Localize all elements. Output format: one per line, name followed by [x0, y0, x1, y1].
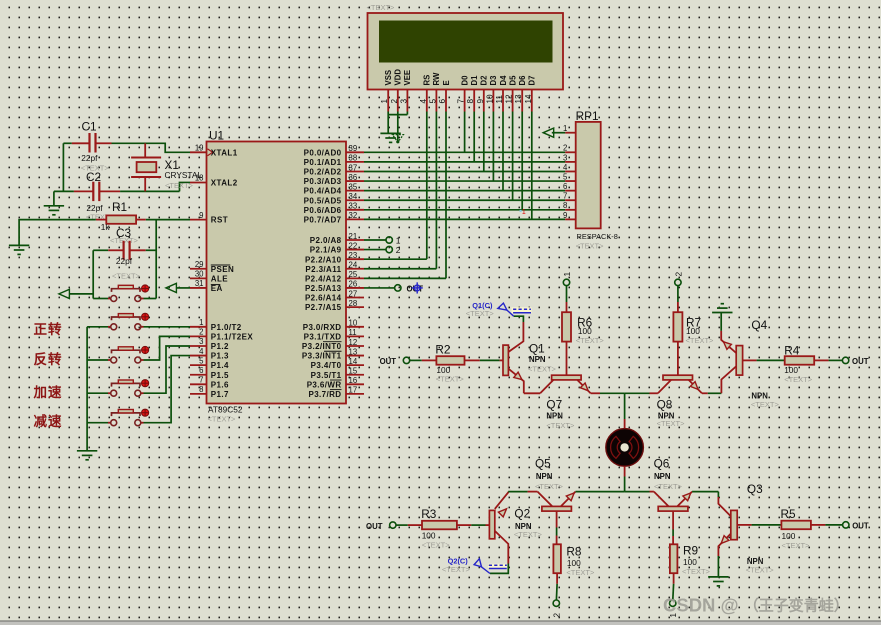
Q6 emitter — [677, 492, 692, 507]
U1 pin 2 P1.1/T2EX stub — [190, 335, 207, 337]
transistor Q6 base bar — [658, 506, 688, 511]
svg-text:6: 6 — [563, 182, 567, 191]
R7 lead bottom — [677, 342, 679, 376]
wire C3 left — [93, 249, 108, 251]
svg-text:Q6: Q6 — [654, 456, 670, 470]
svg-text:RW: RW — [432, 72, 441, 85]
svg-text:<TEXT>: <TEXT> — [546, 421, 575, 430]
svg-text:26: 26 — [349, 280, 358, 289]
R4 lead right — [814, 359, 828, 361]
wire R2 to Q1 base — [480, 359, 500, 361]
ground LCD (bars) — [380, 132, 400, 134]
svg-text:P2.4/A12: P2.4/A12 — [305, 274, 342, 283]
Q8 emitter arrow — [690, 382, 698, 390]
resistor pack RP1 body — [576, 122, 601, 228]
wire left vertical C1-C2 — [62, 143, 64, 191]
terminal 1 (P2.0) — [386, 237, 392, 243]
U1 pin 19 XTAL1 stub — [190, 151, 207, 153]
svg-text:VDD: VDD — [394, 69, 403, 86]
U1 pin 23 P2.2/A10 stub — [346, 258, 364, 260]
svg-text:P0.7/AD7: P0.7/AD7 — [304, 216, 342, 225]
svg-text:<TEXT>: <TEXT> — [514, 530, 543, 539]
wire center to Q6 — [625, 491, 650, 493]
svg-text:22pf: 22pf — [116, 256, 133, 266]
R1 lead right — [136, 219, 146, 221]
svg-text:4: 4 — [199, 347, 204, 356]
svg-text:<TEXT>: <TEXT> — [422, 540, 451, 549]
resistor R6 — [562, 312, 571, 341]
wire Q1 collector to probe — [514, 316, 524, 322]
svg-text:OUT: OUT — [852, 522, 869, 531]
resistor R1 — [106, 215, 136, 223]
wire Q1 emitter to Q7 — [524, 392, 540, 394]
wire Q7 emitter to center — [591, 392, 600, 394]
R3 lead right — [457, 524, 471, 526]
Q4 emitter — [721, 331, 736, 353]
wire P0.4 row to RP1 — [364, 190, 565, 192]
svg-text:27: 27 — [349, 289, 358, 298]
svg-text:6: 6 — [438, 99, 447, 104]
svg-text:P0.3/AD3: P0.3/AD3 — [304, 177, 342, 186]
Q1 emitter arrow — [514, 372, 522, 379]
svg-text:RP1: RP1 — [576, 109, 599, 123]
svg-text:RESPACK-8: RESPACK-8 — [577, 232, 618, 241]
svg-text:<TEXT>: <TEXT> — [782, 541, 811, 550]
svg-text:NPN: NPN — [751, 391, 768, 400]
LCD pin 1 (VSS) stub — [387, 90, 389, 112]
svg-text:1: 1 — [380, 99, 389, 104]
svg-text:10: 10 — [485, 94, 494, 104]
RP1 pin 2 stub — [565, 151, 576, 153]
svg-text:2: 2 — [390, 99, 399, 104]
wire C3 left vertical — [92, 250, 94, 298]
svg-text:NPN: NPN — [654, 472, 671, 481]
svg-text:29: 29 — [195, 260, 204, 269]
ground Q3 — [708, 576, 728, 578]
svg-text:P2.6/A14: P2.6/A14 — [305, 294, 342, 303]
svg-text:100: 100 — [686, 326, 700, 336]
wire P0.3 row to RP1 — [364, 180, 565, 182]
transistor Q4 base bar — [736, 346, 742, 376]
svg-text:5: 5 — [199, 356, 204, 365]
RP1 pin 8 stub — [565, 209, 576, 211]
terminal OUT (P2.5) — [395, 285, 401, 291]
svg-text:U1: U1 — [209, 129, 224, 143]
svg-text:10: 10 — [349, 319, 358, 328]
wire P0.5 row to RP1 — [364, 199, 565, 201]
svg-text:100: 100 — [683, 557, 697, 567]
wire P0.6 row to RP1 — [364, 209, 565, 211]
wire LCD D0 down to P0.0 — [464, 112, 466, 153]
wire P2.5 to terminal OUT — [364, 287, 394, 289]
Q2 collector — [495, 531, 509, 564]
wire VEE to VSS link — [388, 114, 407, 116]
svg-text:33: 33 — [349, 202, 358, 211]
U1 pin 35 P0.4/AD4 stub — [346, 190, 364, 192]
svg-text:11: 11 — [349, 328, 357, 337]
svg-text:6: 6 — [199, 366, 203, 375]
push button accel — [108, 392, 111, 394]
wire LCD RS down — [426, 112, 428, 260]
wire Q2 emitter to Q5 — [508, 491, 527, 493]
U1 pin 38 P0.1/AD1 stub — [346, 161, 364, 163]
wire LCD D4 down to P0.4 — [502, 112, 504, 191]
Q3 emitter arrow — [721, 536, 729, 544]
svg-text:22pf: 22pf — [81, 153, 98, 163]
svg-text:15: 15 — [349, 367, 358, 376]
svg-text:AT89C52: AT89C52 — [208, 405, 243, 415]
wire reset node vertical — [155, 220, 157, 299]
RP1 pin 4 stub — [565, 170, 576, 172]
wire Q8 emitter to Q4 collector — [702, 392, 708, 394]
wire btn-fwd to P1.0 — [144, 326, 191, 328]
push button forward — [108, 326, 111, 328]
Q2 base stub — [486, 524, 490, 526]
U1 pin 5 P1.4 stub — [190, 364, 207, 366]
LCD pin 12 (D5) stub — [512, 90, 514, 112]
C1 lead right — [96, 142, 112, 144]
wire C2 ground drop — [53, 191, 55, 205]
wire motor top — [624, 393, 626, 419]
U1 clock arrow XTAL1 — [208, 149, 213, 156]
svg-text:P0.0/AD0: P0.0/AD0 — [304, 148, 342, 157]
wire P2.1 to terminal 2 — [364, 249, 386, 251]
Q2 emitter — [495, 492, 508, 509]
U1 pin 36 P0.3/AD3 stub — [346, 180, 364, 182]
svg-text:D7: D7 — [528, 76, 537, 86]
svg-text:2: 2 — [199, 328, 203, 337]
svg-text:R9: R9 — [683, 544, 698, 558]
svg-text:14: 14 — [524, 94, 533, 104]
svg-text:21: 21 — [349, 232, 358, 241]
svg-text:加速: 加速 — [33, 384, 63, 400]
svg-text:P0.2/AD2: P0.2/AD2 — [304, 168, 342, 177]
wire btn-rev to P1.1 — [144, 336, 191, 360]
transistor Q5 base bar — [542, 506, 572, 511]
U1 pin 30 ALE stub — [190, 277, 207, 279]
wire LCD RW down — [435, 112, 437, 269]
svg-text:7: 7 — [457, 99, 466, 104]
svg-text:E: E — [442, 80, 451, 85]
U1 pin 7 P1.6 stub — [190, 383, 207, 385]
wire btn-reset left — [93, 298, 108, 300]
terminal OUT right-upper — [842, 357, 848, 363]
svg-text:3: 3 — [563, 153, 567, 162]
LCD pin 14 (D7) stub — [531, 90, 533, 112]
U1 pin 15 P3.5/T1 stub — [346, 374, 364, 376]
R1 lead left — [96, 219, 107, 221]
crystal X1 bottom stub — [144, 177, 146, 191]
R2 lead left — [422, 359, 437, 361]
svg-text:VSS: VSS — [384, 70, 393, 86]
svg-text:100: 100 — [784, 365, 798, 375]
U1 pin 22 P2.1/A9 stub — [346, 249, 364, 251]
R3 lead left — [408, 524, 422, 526]
svg-text:7: 7 — [563, 192, 567, 201]
LCD pin 5 (RW) stub — [435, 90, 437, 112]
U1 pin 10 P3.0/RXD stub — [346, 326, 364, 328]
wire Q3 base to R5 — [752, 524, 782, 526]
svg-text:P0.4/AD4: P0.4/AD4 — [304, 187, 342, 196]
U1 pin 26 P2.5/A13 stub — [346, 287, 364, 289]
wire terminal1 to R6 — [566, 286, 568, 302]
Q7 emitter — [577, 380, 590, 393]
wire Q3 emitter to ground — [717, 556, 719, 577]
svg-text:P0.1/AD1: P0.1/AD1 — [304, 158, 342, 167]
svg-text:D0: D0 — [460, 75, 469, 86]
wire LCD D6 down to P0.6 — [521, 112, 523, 210]
resistor R7 — [673, 312, 682, 341]
crystal X1 body — [137, 162, 157, 172]
wire C2 left — [54, 190, 74, 192]
wire terminal2 to R7 — [677, 286, 679, 302]
wire OUT to R2 — [410, 359, 422, 361]
svg-text:NPN: NPN — [536, 472, 553, 481]
svg-text:14: 14 — [349, 357, 358, 366]
U1 pin 16 P3.6/WR stub — [346, 383, 364, 385]
svg-text:23: 23 — [349, 251, 358, 260]
resistor R5 — [781, 521, 811, 530]
wire Q4 base to R4 — [757, 359, 785, 361]
svg-text:RST: RST — [211, 216, 228, 225]
R6 lead top — [566, 302, 568, 312]
power arrow EA — [166, 283, 177, 292]
Q6 emitter arrow — [683, 493, 691, 501]
U1 pin 34 P0.5/AD5 stub — [346, 199, 364, 201]
U1 pin 11 P3.1/TXD stub — [346, 335, 364, 337]
svg-text:36: 36 — [349, 173, 358, 182]
wire RP1 pin1 to power arrow — [552, 132, 565, 134]
svg-text:NPN: NPN — [546, 411, 563, 420]
LCD pin 7 (D0) stub — [464, 90, 466, 112]
svg-text:<TEXT>: <TEXT> — [436, 375, 465, 384]
wire LCD VSS down — [387, 112, 389, 134]
svg-text:OUT: OUT — [366, 522, 383, 531]
Q3 collector — [717, 492, 719, 497]
svg-text:反转: 反转 — [34, 351, 63, 367]
svg-text:P1.7: P1.7 — [211, 390, 229, 399]
svg-text:P3.0/RXD: P3.0/RXD — [303, 323, 342, 332]
svg-text:5: 5 — [563, 172, 568, 181]
U1 pin 24 P2.3/A11 stub — [346, 268, 364, 270]
svg-text:<TEXT>: <TEXT> — [566, 568, 595, 577]
svg-text:17: 17 — [349, 386, 358, 395]
R7 lead top — [677, 302, 679, 312]
svg-text:Q2: Q2 — [514, 507, 530, 521]
svg-text:34: 34 — [349, 192, 358, 201]
svg-text:30: 30 — [195, 270, 204, 279]
U1 pin 39 P0.0/AD0 stub — [346, 151, 364, 153]
svg-text:OUT: OUT — [852, 357, 869, 366]
RP1 pin 3 stub — [565, 161, 576, 163]
microcontroller U1 AT89C52 body — [207, 142, 347, 404]
svg-text:19: 19 — [195, 144, 204, 153]
LCD pin 11 (D4) stub — [502, 90, 504, 112]
wire P2.2 to RS — [364, 258, 427, 260]
svg-text:37: 37 — [349, 163, 358, 172]
Q6 collector — [654, 492, 669, 507]
LCD pin 9 (D2) stub — [483, 90, 485, 112]
svg-text:EA: EA — [211, 284, 223, 293]
wire btn-rev left — [87, 359, 108, 361]
Q4 collector — [721, 366, 736, 393]
wire C3 right — [146, 249, 157, 251]
motor M1 — [606, 429, 644, 467]
svg-text:5: 5 — [428, 99, 437, 104]
RP1 pin 9 stub — [565, 218, 576, 220]
svg-text:22pf: 22pf — [86, 203, 103, 213]
svg-text:减速: 减速 — [34, 413, 63, 429]
wire R9 to terminal — [672, 584, 675, 600]
svg-text:38: 38 — [349, 154, 358, 163]
terminal 2 (P2.1) — [386, 246, 392, 252]
C2 lead right — [99, 190, 120, 192]
U1 pin 21 P2.0/A8 stub — [346, 239, 364, 241]
svg-text:D3: D3 — [489, 75, 498, 86]
svg-text:4: 4 — [419, 99, 428, 104]
wire EA arrow — [176, 287, 190, 289]
C2 lead left — [74, 190, 93, 192]
wire P0.0 row to RP1 — [364, 151, 565, 153]
power arrow RP1 — [543, 128, 554, 137]
crystal X1 plates — [131, 157, 161, 159]
U1 pin 3 P1.2 stub — [190, 345, 207, 347]
svg-text:25: 25 — [349, 270, 358, 279]
bottom bar — [0, 621, 881, 625]
svg-text:4: 4 — [563, 163, 568, 172]
svg-text:13: 13 — [514, 94, 523, 104]
svg-text:Q4: Q4 — [751, 318, 767, 332]
wire Q6 emitter to Q3 — [692, 491, 718, 493]
svg-text:<TEXT>: <TEXT> — [112, 272, 141, 281]
wire Q5 emitter to center — [576, 491, 625, 493]
wire LCD VEE down — [406, 112, 408, 115]
svg-text:<TEXT>: <TEXT> — [528, 364, 557, 373]
U1 pin 4 P1.3 stub — [190, 355, 207, 357]
LCD pin 6 (E) stub — [445, 90, 447, 112]
U1 pin 31 EA stub — [190, 287, 207, 289]
Q3 base stub — [737, 524, 751, 526]
transistor Q1 base bar — [503, 345, 508, 375]
R8 lead bottom — [556, 573, 558, 584]
wire LCD D7 down to P0.7 — [531, 112, 533, 220]
svg-text:32: 32 — [349, 211, 358, 220]
svg-text:P2.2/A10: P2.2/A10 — [305, 255, 342, 264]
svg-text:正转: 正转 — [34, 321, 63, 337]
button ground bus — [86, 327, 88, 451]
svg-text:<TEXT>: <TEXT> — [657, 419, 686, 428]
svg-text:<TEXT>: <TEXT> — [208, 415, 237, 424]
transistor Q2 base bar — [489, 510, 494, 538]
Q5 emitter arrow — [566, 493, 574, 501]
wire RST right — [146, 219, 190, 221]
U1 pin 18 XTAL2 stub — [190, 182, 207, 184]
ground LCD arrow (dotted) — [392, 135, 403, 143]
LCD pin 13 (D6) stub — [521, 90, 523, 112]
svg-text:C3: C3 — [116, 226, 132, 240]
svg-text:R5: R5 — [781, 507, 797, 521]
wire LCD D3 down to P0.3 — [492, 112, 494, 182]
svg-text:Q5: Q5 — [535, 456, 551, 470]
U1 pin 25 P2.4/A12 stub — [346, 277, 364, 279]
svg-text:31: 31 — [195, 279, 204, 288]
svg-text:D4: D4 — [499, 75, 508, 86]
wire Q2 collector to probe — [490, 564, 508, 574]
U1 pin 33 P0.6/AD6 stub — [346, 209, 364, 211]
wire center to Q8 collector — [625, 392, 650, 394]
svg-text:<TEXT>: <TEXT> — [576, 242, 605, 251]
resistor R4 — [785, 356, 815, 365]
ground C2 — [44, 205, 64, 207]
svg-text:<TEXT>: <TEXT> — [654, 482, 683, 491]
U1 pin 32 P0.7/AD7 stub — [346, 218, 364, 220]
svg-text:Q7: Q7 — [546, 397, 562, 411]
svg-text:XTAL1: XTAL1 — [211, 148, 238, 157]
U1 pin 29 PSEN stub — [190, 268, 207, 270]
wire motor bottom — [624, 466, 626, 476]
probe Q2(C) — [488, 564, 507, 570]
transistor Q3 base bar — [731, 510, 737, 539]
svg-text:7: 7 — [199, 376, 203, 385]
U1 pin 9 RST stub — [190, 219, 207, 221]
svg-text:3: 3 — [199, 337, 203, 346]
resistor R3 — [422, 521, 457, 530]
push button reset — [108, 298, 111, 300]
RP1 pin 5 stub — [565, 180, 576, 182]
R9 stub top — [672, 511, 674, 529]
svg-text:R1: R1 — [112, 200, 127, 214]
svg-text:PSEN: PSEN — [211, 265, 234, 274]
wire XTAL1 net — [112, 143, 191, 152]
U1 pin 12 P3.2/INT0 stub — [346, 345, 364, 347]
wire P0.1 row to RP1 — [364, 161, 565, 163]
svg-text:1: 1 — [562, 272, 572, 277]
svg-text:R3: R3 — [421, 507, 437, 521]
probe Q1(C) — [512, 307, 532, 313]
wire C1 left — [63, 142, 71, 144]
wire P2.3 to RW — [364, 268, 436, 270]
U1 pin 13 P3.3/INT1 stub — [346, 355, 364, 357]
Q7 collector — [540, 380, 553, 393]
U1 pin 17 P3.7/RD stub — [346, 393, 364, 395]
origin marker (blue) — [414, 285, 420, 291]
U1 pin 37 P0.2/AD2 stub — [346, 170, 364, 172]
svg-text:8: 8 — [466, 99, 475, 104]
transistor Q7 base bar — [552, 375, 582, 380]
svg-text:CRYSTAL: CRYSTAL — [165, 170, 203, 180]
wire Q4 emitter to ground — [720, 313, 722, 331]
Q5 emitter — [561, 492, 576, 507]
svg-text:1: 1 — [396, 235, 401, 245]
Q7 emitter arrow — [580, 383, 588, 391]
U1 pin 8 P1.7 stub — [190, 393, 207, 395]
svg-text:<TEXT>: <TEXT> — [746, 565, 775, 574]
svg-text:P0.5/AD5: P0.5/AD5 — [304, 196, 342, 205]
Q4 emitter arrow — [724, 342, 732, 350]
LCD module LM016L body — [368, 13, 564, 90]
svg-text:NPN: NPN — [529, 355, 546, 364]
wire R8 to terminal — [555, 584, 558, 600]
RP1 pin 6 stub — [565, 190, 576, 192]
svg-text:D2: D2 — [480, 75, 489, 86]
svg-text:11: 11 — [495, 95, 504, 104]
svg-text:OUT: OUT — [380, 357, 397, 366]
U1 pin 14 P3.4/T0 stub — [346, 364, 364, 366]
C3 lead right — [130, 249, 146, 251]
wire C2 to crystal bottom — [120, 190, 179, 192]
svg-text:<TEXT>: <TEXT> — [442, 565, 471, 574]
svg-text:28: 28 — [349, 299, 358, 308]
